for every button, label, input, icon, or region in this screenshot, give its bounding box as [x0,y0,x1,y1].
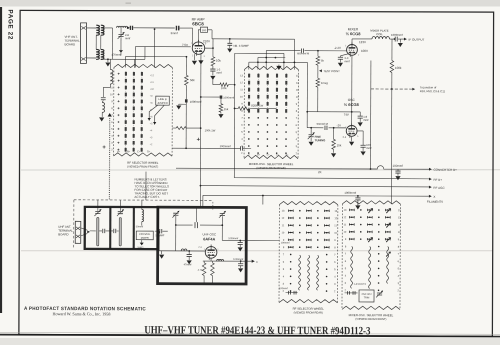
capacitor 3-3mmf [340,54,347,56]
svg-text:+11: +11 [150,81,155,84]
trimmer capacitor 2-8mmf [120,28,122,34]
svg-text:2.4: 2.4 [343,136,347,139]
resistor 5k [317,50,319,52]
wire [97,200,99,211]
tube V3 UHF OSC 6AF4A [205,247,217,259]
svg-text:BOARD: BOARD [58,232,68,236]
svg-text:PAGE 22: PAGE 22 [7,10,14,41]
wire [258,57,285,59]
wire [265,51,267,70]
plate choke [217,259,224,261]
capacitor 100mmf [397,169,399,171]
svg-text:210V: 210V [203,39,210,43]
capacitor [128,27,130,29]
svg-text:mmf: mmf [363,118,368,122]
bank S3 contacts [288,210,293,212]
svg-text:COIL: COIL [376,32,383,36]
wire [101,58,145,60]
svg-text:RF B+: RF B+ [433,178,442,182]
wire [144,47,146,60]
capacitor 1-8mmf [359,112,361,116]
svg-text:R16, R50, C9 & C11: R16, R50, C9 & C11 [420,89,446,93]
cathode resistor [211,261,213,263]
svg-text:FILAMENTS: FILAMENTS [427,200,443,204]
mixer feed [141,222,143,226]
svg-text:CRYSTAL: CRYSTAL [139,233,151,236]
cathode resistor [203,261,205,263]
svg-text:mmf: mmf [216,71,221,75]
ground [179,103,186,105]
crystal mixer label [136,231,153,240]
UHF oscillator box [158,207,247,284]
resistor 10k [205,47,213,49]
svg-text:(VIEWED FROM REAR): (VIEWED FROM REAR) [256,166,285,170]
wire [141,200,143,209]
page edge bar [0,7,2,313]
coil L3 [109,59,111,69]
wire cathode down [351,56,353,112]
ground [101,112,103,116]
trimmer capacitors [345,292,358,294]
svg-text:mmf: mmf [344,59,349,63]
svg-text:1000mmf: 1000mmf [391,33,403,37]
coil L4 [102,100,103,102]
svg-text:UHF OSC: UHF OSC [203,232,217,236]
tube V1 RF AMP 6BC8 [192,42,204,54]
svg-text:6BC8: 6BC8 [192,21,204,26]
svg-text:15k: 15k [337,143,342,147]
svg-text:IF OUTPUT: IF OUTPUT [409,38,425,42]
wire [87,27,97,29]
resistor 820k [235,107,239,109]
scan fold line [21,250,493,252]
svg-text:mmf: mmf [125,36,130,40]
svg-text:+10: +10 [150,88,155,91]
svg-text:56k: 56k [190,78,195,82]
svg-text:C+: C+ [137,150,141,153]
capacitor 1000mmf bypass [201,96,220,98]
bank S3 coil chains [299,255,301,290]
capacitor [101,97,106,99]
svg-text:RF SELECTOR WHEEL: RF SELECTOR WHEEL [293,307,325,311]
capacitor 470mmf [119,50,123,53]
svg-text:470mmf: 470mmf [111,53,121,57]
gang link dashed [212,202,214,211]
UHF osc coil [142,210,144,222]
svg-text:(VIEWED FROM FRONT): (VIEWED FROM FRONT) [355,317,386,321]
bank S1 contacts A [125,72,127,76]
svg-text:2K: 2K [318,170,322,174]
wire into bank S2 [293,39,295,69]
scan fold line [21,169,500,171]
svg-text:50mmf M: 50mmf M [317,122,329,126]
svg-text:ACTUALLY EXIST.: ACTUALLY EXIST. [134,195,159,199]
tuning capacitor gang 2 [119,217,121,246]
capacitor 3mmf [176,26,177,31]
svg-text:1000mmf: 1000mmf [223,95,234,99]
wire [390,38,395,40]
UHF preselector box [85,207,158,249]
converter B+ bus [176,165,429,169]
resistor 100k [212,77,214,84]
svg-text:820k: 820k [251,104,258,108]
wire [145,172,147,200]
RF B+ bus [234,178,429,179]
capacitor 1000mmf [185,85,187,99]
tube V2A MIXER [347,44,358,55]
svg-text:MIXER-OSC. SELECTOR WHEEL: MIXER-OSC. SELECTOR WHEEL [349,313,394,317]
svg-text:3mmf: 3mmf [171,31,178,35]
trimmer capacitor C2 [118,211,123,213]
capacitor link [111,230,113,232]
svg-text:D+: D+ [147,150,151,153]
svg-text:1W: 1W [259,104,263,108]
RF selector wheel bank S1 (front) [114,64,173,67]
grid wire [158,231,160,251]
neutralizing capacitor 3-5mmf [229,39,231,43]
svg-text:1meg: 1meg [321,81,328,85]
svg-text:LINE B: LINE B [158,97,167,101]
mixer-osc selector wheel bank S4 (front) [342,201,400,204]
svg-text:TEST POINT: TEST POINT [323,69,340,73]
antenna coil L1 [117,26,128,28]
wire [124,57,126,68]
wire y128 with resistor [172,127,176,129]
wire [306,62,308,127]
mechanical link chain [108,118,110,200]
svg-text:TRIM: TRIM [364,297,370,299]
scan smudge [126,2,132,4]
svg-text:74V: 74V [344,113,349,117]
svg-text:680mmf M: 680mmf M [297,51,309,55]
input arrows [81,228,88,230]
link B jumper tag [156,96,170,105]
feed arrow [278,65,280,68]
wire [133,27,174,29]
cathode feed to AGC bus [199,54,202,207]
svg-text:NB. 3-5MMF: NB. 3-5MMF [233,44,249,48]
svg-text:100mmf: 100mmf [279,287,288,290]
wire [249,61,308,63]
mixer-osc selector wheel bank S2 (rear) [244,66,298,69]
wire [134,47,136,68]
mixer plate coil [351,39,353,44]
svg-text:½ 6CG8: ½ 6CG8 [346,31,362,36]
svg-text:(VIEWED FROM REAR): (VIEWED FROM REAR) [294,310,323,314]
wire [180,27,193,29]
mixer 100k line to bank S4 [390,89,392,204]
resistor 56k [185,57,187,75]
svg-text:100V: 100V [361,49,368,53]
svg-text:50mmf: 50mmf [136,225,144,228]
svg-text:CONVERTER B+: CONVERTER B+ [434,168,458,172]
svg-text:1-3.5mmf S: 1-3.5mmf S [354,283,367,286]
bank S4 contacts [349,209,354,211]
svg-text:+12: +12 [150,74,155,77]
svg-text:1000mmf: 1000mmf [344,191,356,195]
trimmer capacitor C3 [173,212,178,214]
tube V2B OSC [346,125,357,136]
svg-text:7.5V: 7.5V [182,43,188,47]
capacitor 1000mmf if [394,37,396,42]
svg-text:RF SELECTOR WHEEL: RF SELECTOR WHEEL [127,161,159,165]
svg-text:1000mmf: 1000mmf [190,100,202,104]
svg-text:-2.2V: -2.2V [334,46,341,50]
capacitor link [99,230,102,232]
svg-text:(VIEWED FROM FRONT): (VIEWED FROM FRONT) [127,165,158,169]
svg-text:½ 6CG8: ½ 6CG8 [344,102,360,107]
bank S3 bottom capacitors [286,292,298,294]
wire [133,59,135,67]
wire [119,200,121,211]
terminal board TB1 [80,23,86,64]
B+ feed line [233,53,235,177]
wire to bank S3 [246,239,279,241]
mixer grid bus [266,50,300,52]
bank S4 wiper contacts [386,208,391,214]
trimmer capacitor C4 [220,212,225,214]
diode 1N82 [141,240,143,242]
capacitor 1000mmf [240,260,242,262]
IF output arrow [398,38,404,40]
svg-text:300: 300 [202,28,207,32]
long vertical feeder [370,60,372,168]
osc plate wire [307,111,360,113]
svg-text:100k: 100k [395,66,402,70]
osc tank capacitor [176,224,193,226]
svg-text:MIXER-OSC. SELECTOR WHEEL: MIXER-OSC. SELECTOR WHEEL [249,162,294,166]
wire to bank S3 [262,196,264,205]
RF AGC bus [200,186,429,187]
capacitor 1000mmf [172,147,240,149]
svg-text:UHF–VHF TUNER #94E144-23 & UHF: UHF–VHF TUNER #94E144-23 & UHF TUNER #94… [144,324,370,337]
capacitor 47mmf [188,251,190,254]
svg-text:100k: 100k [221,86,227,90]
svg-text:OSC ADJ: OSC ADJ [362,293,372,296]
osc grid wire [307,127,323,129]
svg-text:1000mmf: 1000mmf [233,258,243,261]
svg-text:100k 1W: 100k 1W [205,128,216,132]
UHF dashed enclosure [74,199,213,202]
ground [161,251,163,254]
test point [317,65,319,78]
wire [235,52,284,54]
resistor 1meg [316,78,320,87]
osc B+ feed [222,239,246,241]
svg-text:1000mmf: 1000mmf [228,237,238,240]
grid coil [181,249,187,251]
RF selector wheel bank S3 (rear) [279,201,338,204]
bank S1 contacts B [133,72,135,76]
ground [193,54,195,60]
UHF IF output [246,260,251,262]
jumper leader arrows [149,105,158,121]
resistor 15k [333,127,335,129]
wire [153,29,155,67]
svg-text:TUNING: TUNING [315,138,326,142]
bottom rule [0,335,500,337]
svg-text:MIXER: MIXER [141,237,149,240]
svg-text:-2V: -2V [337,123,342,127]
cathode bottom wire [203,260,246,262]
svg-text:RF AGC: RF AGC [433,186,445,190]
ground cathode [351,137,353,141]
trimmer capacitor C1 [95,211,100,213]
capacitor 100mmf [357,130,363,132]
capacitor 1-3mmf [212,66,214,69]
resistor 100k [394,39,396,42]
svg-text:B+: B+ [127,150,131,153]
transformer T1 [96,25,99,35]
coupling capacitor 1.5mmf [155,230,159,232]
wire grid lead [191,28,193,46]
svg-text:100mmf: 100mmf [281,242,290,245]
svg-text:1N82: 1N82 [137,245,144,249]
svg-text:10k: 10k [216,59,221,63]
ground [105,62,110,66]
svg-text:BOARD: BOARD [64,42,76,46]
capacitor 1000mmf [239,240,241,242]
capacitor 50mmf [324,126,326,130]
svg-text:100mmf: 100mmf [393,164,404,168]
filament bus [203,194,429,197]
bank S2 contacts [248,74,250,78]
svg-text:1000mmf: 1000mmf [220,144,231,148]
wire [101,27,113,29]
wire to junction [371,88,412,90]
svg-text:123V: 123V [359,40,366,44]
svg-text:A+: A+ [117,150,121,153]
bank S1 plus marks [118,73,120,75]
svg-text:X: X [433,195,435,199]
plate coil L2 300 [198,30,200,41]
bank S1 contacts C [141,72,143,76]
wire [90,230,96,232]
tuning capacitor gang 1 [97,217,99,246]
ground [399,39,401,42]
svg-text:15k: 15k [224,107,229,111]
wire plate bus [211,30,213,39]
svg-text:6AF4A: 6AF4A [203,237,215,241]
terminal board TB2 [75,221,81,243]
resistor 15k [220,99,222,104]
svg-text:JUMPER: JUMPER [157,101,168,105]
capacitor 1000mmf filament [357,195,359,197]
svg-text:47mmf: 47mmf [184,263,192,266]
bank S4 coil chains [351,246,353,288]
fine tuning capacitor [310,127,312,129]
